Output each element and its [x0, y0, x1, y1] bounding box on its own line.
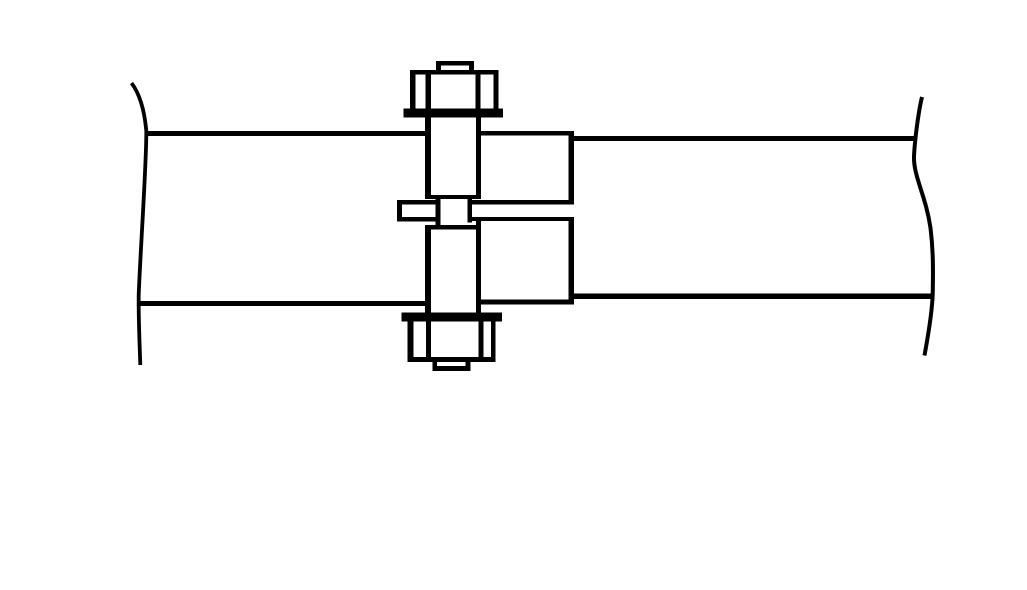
- left shaft break curve: [132, 83, 147, 365]
- bottom washer: [401, 313, 502, 322]
- left shaft top line: [146, 131, 426, 136]
- cotter square right side: [467, 195, 472, 223]
- bolt head outer left facet: [410, 70, 415, 109]
- cotter tab top edge: [397, 200, 440, 205]
- bolt head inner right facet: [476, 70, 481, 109]
- fork upper box top edge: [480, 131, 575, 136]
- bolt head top edge: [410, 70, 498, 74]
- nut outer right facet: [491, 322, 496, 362]
- bolt head inner left facet: [426, 70, 431, 109]
- fork lower box top edge (lower slot line): [472, 217, 574, 221]
- left shaft bottom line: [139, 301, 427, 306]
- nut inner left facet: [426, 322, 431, 362]
- bolt shank lower right side: [476, 221, 481, 313]
- cotter square left side: [435, 195, 440, 225]
- right shaft bottom line: [569, 294, 933, 300]
- nut inner right facet: [479, 322, 484, 362]
- nut outer left facet: [408, 322, 414, 362]
- fork upper box bottom edge (upper slot line): [472, 200, 574, 204]
- bolt shank upper bottom cap: [425, 195, 481, 199]
- fork lower box right edge: [569, 217, 575, 305]
- bolt shank lower left side: [425, 229, 431, 313]
- cotter tab bottom edge: [397, 217, 440, 222]
- cotter square bottom cap (lower shank top cap): [425, 225, 481, 229]
- bolt bottom cap outline: [432, 357, 470, 371]
- bolt head outer right facet: [493, 70, 498, 109]
- fork lower box bottom edge: [481, 300, 575, 305]
- bolt top cap outline: [436, 61, 474, 74]
- top washer: [404, 109, 504, 118]
- right shaft break curve: [914, 97, 933, 356]
- nut bottom edge: [408, 357, 496, 362]
- right shaft top line: [569, 136, 916, 141]
- bolt shank upper left side: [425, 118, 431, 200]
- bolt shank upper right side: [476, 118, 481, 200]
- fork upper box right edge: [569, 131, 575, 204]
- cotter tab left edge: [397, 200, 402, 222]
